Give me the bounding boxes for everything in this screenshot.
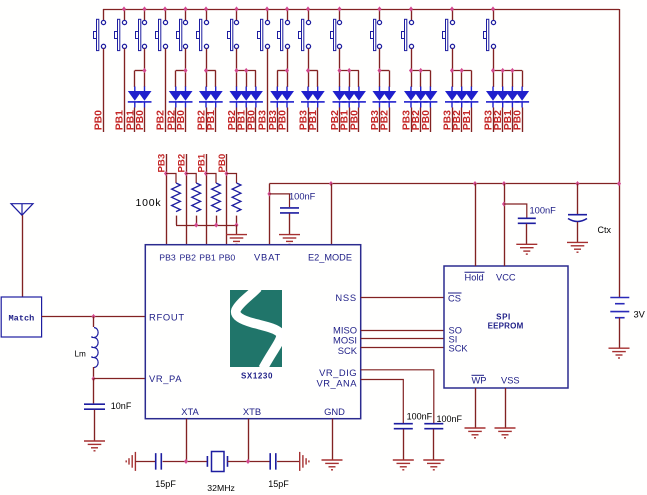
wire: [379, 108, 381, 133]
junction: [460, 68, 464, 73]
junction Lm: [91, 314, 95, 319]
resistor R1: [166, 174, 180, 226]
capacitor 100nF (VCC): [518, 218, 536, 223]
wire GND pin: [332, 419, 334, 460]
junction rail-S6: [204, 6, 208, 11]
junction Ctx: [575, 181, 579, 186]
svg-text:XTA: XTA: [181, 406, 199, 417]
junction: [510, 68, 514, 73]
diode D24: [464, 87, 478, 108]
wire: [358, 108, 360, 133]
svg-text:100nF: 100nF: [437, 414, 463, 424]
ground: [393, 460, 414, 470]
wire: [403, 429, 405, 460]
switch S6: [197, 9, 209, 71]
junction rail-S9: [285, 6, 289, 11]
wire: [236, 108, 238, 133]
wire: [526, 224, 528, 245]
wire: [289, 213, 291, 234]
wire SCK-SCK: [361, 347, 444, 349]
switch S1: [94, 9, 106, 132]
ground (rotated): [300, 452, 309, 471]
junction XTB: [246, 459, 250, 464]
junction rail-S12: [377, 6, 381, 11]
svg-text:EEPROM: EEPROM: [488, 322, 524, 331]
wire MISO-SO: [361, 330, 444, 332]
diode D3: [169, 87, 183, 108]
svg-text:GND: GND: [324, 406, 345, 417]
junction rail-S10: [306, 6, 310, 11]
wire: [185, 108, 187, 133]
junction rail-S7: [234, 6, 238, 11]
ground: [279, 235, 300, 245]
wire: [433, 429, 435, 460]
wire branch S15: [493, 71, 523, 88]
wire: [144, 108, 146, 133]
inductor Lm: [92, 328, 98, 368]
svg-text:PB0: PB0: [135, 110, 146, 130]
svg-text:100nF: 100nF: [289, 192, 316, 202]
junction: [491, 68, 495, 73]
wire: [522, 108, 524, 133]
ground: [465, 428, 486, 438]
junction: [204, 171, 208, 176]
wire VCC cap branch: [504, 204, 527, 218]
switch S3: [136, 9, 147, 71]
ground: [226, 235, 247, 245]
capacitor Ctx: [568, 215, 587, 222]
svg-text:Lm: Lm: [75, 350, 87, 359]
wire VCC rail right drop: [619, 9, 621, 298]
logo Semtech: [230, 288, 282, 369]
wire branch S13: [411, 71, 431, 88]
wire: [175, 108, 177, 133]
battery BT1 3V: [610, 298, 629, 318]
svg-text:VSS: VSS: [501, 375, 520, 385]
ground: [322, 460, 343, 470]
junction: [142, 68, 146, 73]
op-chip U1 SX1230 body: [145, 245, 360, 419]
junction rail-S13: [409, 6, 413, 11]
svg-text:Match: Match: [9, 314, 35, 324]
switch S15: [484, 9, 496, 71]
capacitor 100nF (VBAT): [280, 208, 299, 213]
junction: [234, 68, 238, 73]
svg-text:VR_ANA: VR_ANA: [316, 377, 357, 388]
wire: [512, 108, 514, 133]
wire RFOUT: [42, 316, 146, 318]
svg-text:RFOUT: RFOUT: [149, 312, 185, 323]
wire: [93, 317, 95, 328]
svg-text:PB1: PB1: [199, 252, 216, 262]
wire: [502, 108, 504, 133]
wire: [22, 215, 24, 297]
junction VBAT cap: [267, 191, 271, 196]
svg-text:15pF: 15pF: [268, 479, 289, 489]
switch S11: [331, 9, 342, 71]
svg-text:PB0: PB0: [94, 110, 105, 130]
diode D13: [311, 87, 325, 108]
junction: [409, 68, 413, 73]
svg-text:PB2: PB2: [177, 154, 188, 173]
switch S2: [115, 9, 127, 132]
junction VCC: [502, 181, 506, 186]
label SPI EEPROM: [488, 313, 524, 331]
wire: [236, 225, 238, 235]
wire net PB2: [186, 154, 188, 245]
wire branch S14: [452, 71, 472, 88]
wire VCC: [504, 184, 506, 266]
capacitor 15pF right: [270, 453, 276, 470]
junction: [244, 68, 248, 73]
junction: [214, 222, 218, 227]
junction: [204, 68, 208, 73]
junction XTA: [184, 459, 188, 464]
wire VBAT rail: [269, 183, 619, 185]
junction rail-S8: [265, 6, 269, 11]
svg-text:VBAT: VBAT: [254, 251, 281, 262]
svg-text:XTB: XTB: [243, 406, 261, 417]
wire: [471, 108, 473, 133]
svg-text:Ctx: Ctx: [598, 225, 612, 235]
diode D9: [249, 87, 263, 108]
junction: [184, 171, 188, 176]
wire: [94, 410, 96, 441]
diode D26: [496, 87, 510, 108]
diode D16: [352, 87, 366, 108]
junction: [224, 171, 228, 176]
svg-text:15pF: 15pF: [155, 479, 176, 489]
diode D20: [414, 87, 428, 108]
switch S4: [156, 9, 168, 132]
wire: [163, 461, 208, 463]
svg-text:PB0: PB0: [217, 154, 228, 173]
wire NSS-CS: [361, 297, 444, 299]
junction: [234, 222, 238, 227]
svg-text:PB2: PB2: [179, 252, 196, 262]
svg-text:SCK: SCK: [449, 344, 469, 354]
capacitor 100nF (VR_DIG): [424, 424, 443, 429]
antenna ANT: [11, 204, 33, 216]
diode D14: [333, 87, 347, 108]
wire branch S3: [135, 71, 145, 88]
wire: [206, 108, 208, 133]
wire branch S6: [206, 71, 216, 88]
wire branch S9: [277, 71, 287, 88]
capacitor 10nF: [84, 404, 105, 409]
wire: [255, 108, 257, 133]
wire: [461, 108, 463, 133]
junction: [164, 171, 168, 176]
svg-text:PB1: PB1: [462, 110, 473, 130]
svg-text:10nF: 10nF: [111, 401, 132, 411]
diode D7: [230, 87, 244, 108]
switch S12: [371, 9, 382, 71]
junction E2_MODE: [329, 181, 333, 186]
diode D18: [382, 87, 396, 108]
junction rail-S15: [491, 6, 495, 11]
svg-text:32MHz: 32MHz: [207, 483, 235, 493]
wire: [389, 108, 391, 133]
svg-text:PB2: PB2: [156, 110, 167, 130]
junction rail-S5: [183, 6, 187, 11]
wire VSS: [505, 388, 507, 428]
svg-text:PB0: PB0: [176, 110, 187, 130]
ground (rotated): [126, 452, 135, 471]
svg-text:100nF: 100nF: [530, 206, 557, 216]
diode D6: [209, 87, 223, 108]
diode D2: [138, 87, 152, 108]
resistor R3: [206, 174, 220, 226]
wire: [619, 318, 621, 348]
svg-text:CS: CS: [448, 293, 461, 303]
wire: [452, 108, 454, 133]
wire cap branch: [269, 194, 289, 207]
junction Hold: [473, 181, 477, 186]
wire: [135, 461, 155, 463]
svg-text:SCK: SCK: [338, 345, 358, 356]
wire Ctx: [577, 184, 579, 214]
ground: [567, 242, 588, 252]
diode D11: [280, 87, 294, 108]
wire: [577, 222, 579, 242]
junction rail-S4: [163, 6, 167, 11]
svg-text:VCC: VCC: [496, 272, 516, 282]
diode D23: [455, 87, 469, 108]
svg-text:PB1: PB1: [115, 110, 126, 130]
diode D10: [270, 87, 284, 108]
svg-text:Hold: Hold: [465, 272, 484, 282]
switch S14: [443, 9, 455, 71]
wire net PB3: [166, 154, 168, 245]
svg-text:3V: 3V: [634, 310, 646, 320]
wire: [339, 108, 341, 133]
diode D8: [239, 87, 253, 108]
wire branch S5: [176, 71, 186, 88]
svg-text:PB0: PB0: [349, 110, 360, 130]
junction VCC cap: [502, 201, 506, 206]
pin Hold: [465, 272, 485, 282]
ground: [84, 441, 105, 451]
diode D1: [128, 87, 142, 108]
wire XTB: [248, 419, 250, 462]
diode D5: [199, 87, 213, 108]
diode D19: [404, 87, 418, 108]
wire: [287, 108, 289, 133]
junction VR_PA: [91, 376, 95, 381]
diode D15: [342, 87, 356, 108]
wire branch S12: [380, 71, 390, 88]
svg-text:PB0: PB0: [513, 110, 524, 130]
junction: [347, 68, 351, 73]
capacitor 100nF (VR_ANA): [394, 424, 413, 429]
junction rail-S3: [142, 6, 146, 11]
junction: [501, 68, 505, 73]
diode D28: [515, 87, 529, 108]
capacitor 15pF left: [156, 453, 162, 470]
wire: [420, 108, 422, 133]
wire VR_DIG: [361, 370, 434, 423]
junction: [285, 68, 289, 73]
wire: [317, 108, 319, 133]
svg-text:PB3: PB3: [157, 154, 168, 173]
switch S10: [299, 9, 311, 71]
wire: [411, 108, 413, 133]
wire: [93, 367, 95, 379]
wire: [493, 108, 495, 133]
wire VR_PA: [94, 378, 146, 380]
svg-text:E2_MODE: E2_MODE: [308, 252, 352, 262]
match network M1: [1, 297, 41, 337]
wire resistor bus: [176, 225, 237, 227]
wire branch S7: [237, 71, 256, 88]
diode D21: [423, 87, 437, 108]
wire: [277, 108, 279, 133]
junction rail-S2: [122, 6, 126, 11]
svg-text:PB0: PB0: [421, 110, 432, 130]
svg-text:PB1: PB1: [308, 110, 319, 130]
svg-text:SX1230: SX1230: [241, 372, 273, 381]
svg-text:100nF: 100nF: [407, 412, 433, 422]
ground: [423, 460, 444, 470]
wire VCC top rail: [103, 9, 619, 11]
wire: [93, 379, 95, 404]
crystal X1 32MHz: [207, 452, 227, 472]
ground: [609, 348, 630, 358]
diode D27: [505, 87, 519, 108]
wire XTA: [186, 419, 188, 462]
wire branch S11: [340, 71, 359, 88]
wire branch S10: [308, 71, 318, 88]
wire: [308, 108, 310, 133]
diode D4: [179, 87, 193, 108]
ground: [516, 244, 537, 254]
junction rail-S11: [337, 6, 341, 11]
junction: [419, 68, 423, 73]
svg-text:NSS: NSS: [335, 292, 357, 303]
wire Hold: [475, 184, 477, 266]
junction: [183, 68, 187, 73]
svg-text:MOSI: MOSI: [333, 335, 357, 346]
junction: [450, 68, 454, 73]
diode D17: [373, 87, 387, 108]
wire net PB0: [226, 154, 228, 245]
junction: [306, 68, 310, 73]
pin CS: [448, 293, 462, 303]
svg-text:PB3: PB3: [159, 252, 176, 262]
diode D22: [445, 87, 459, 108]
wire: [349, 108, 351, 133]
svg-text:PB0: PB0: [278, 110, 289, 130]
switch S13: [402, 9, 414, 71]
switch S7: [228, 9, 239, 71]
switch S5: [177, 9, 188, 71]
switch S8: [258, 9, 270, 132]
wire VR_ANA: [361, 380, 404, 424]
junction: [337, 68, 341, 73]
wire: [215, 108, 217, 133]
wire MOSI-SI: [361, 338, 444, 340]
svg-text:WP: WP: [472, 375, 487, 385]
pin WP: [472, 375, 487, 385]
wire VBAT drop: [269, 184, 271, 245]
wire net PB1: [206, 154, 208, 245]
wire WP: [475, 388, 477, 428]
junction rail-right: [617, 181, 621, 186]
junction rail-S14: [450, 6, 454, 11]
diode D25: [486, 87, 500, 108]
svg-text:PB0: PB0: [246, 110, 257, 130]
svg-text:SPI: SPI: [496, 313, 511, 322]
svg-text:PB1: PB1: [206, 110, 217, 130]
wire: [246, 108, 248, 133]
svg-text:PB0: PB0: [219, 252, 236, 262]
svg-text:100k: 100k: [136, 197, 162, 209]
chip U2 SPI EEPROM body: [444, 266, 568, 388]
wire: [430, 108, 432, 133]
wire: [228, 461, 270, 463]
junction: [194, 222, 198, 227]
wire E2_MODE: [331, 184, 333, 245]
svg-text:PB1: PB1: [197, 153, 208, 172]
resistor R2: [186, 174, 200, 226]
svg-text:PB2: PB2: [380, 110, 391, 130]
svg-text:VR_PA: VR_PA: [149, 373, 182, 384]
resistor R4: [227, 174, 241, 226]
wire: [277, 461, 300, 463]
junction: [377, 68, 381, 73]
wire: [134, 108, 136, 133]
switch S9: [278, 9, 290, 71]
diode D12: [301, 87, 315, 108]
ground: [495, 428, 516, 438]
